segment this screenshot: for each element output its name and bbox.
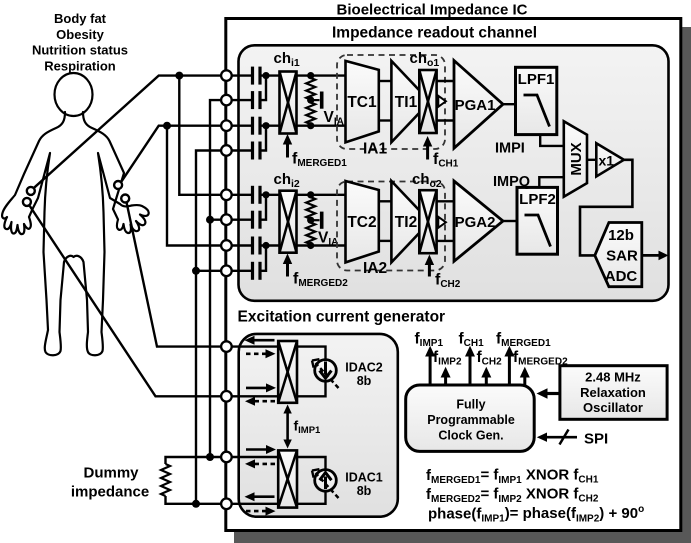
svg-text:Programmable: Programmable	[427, 413, 515, 427]
arrow clk fMERGED2	[520, 367, 530, 385]
svg-text:2.48 MHz: 2.48 MHz	[585, 370, 641, 385]
node R1 mid	[307, 97, 314, 104]
svg-text:Body fat: Body fat	[54, 11, 107, 26]
capacitor C2b	[253, 211, 261, 229]
wire TC2-TI2 bottom	[379, 240, 392, 242]
node pad12 junction	[192, 500, 200, 508]
pad 11	[221, 452, 232, 463]
node R1 bottom	[307, 122, 314, 129]
wire pad12 to chopper chB	[232, 503, 279, 505]
oscillator 2.48 MHz Relaxation Oscillator	[560, 366, 667, 420]
label IDAC2 8b	[345, 361, 383, 389]
svg-text:PGA2: PGA2	[455, 214, 496, 231]
label clockgen	[427, 398, 515, 443]
current source IDAC2	[312, 359, 339, 388]
electrode L2	[23, 198, 31, 206]
wire cho1 to PGA1 top	[437, 80, 454, 82]
pad 1	[221, 70, 232, 81]
wire electrode L2 to pad10	[30, 206, 227, 396]
clockgen Fully Programmable Clock Gen	[406, 385, 535, 451]
wire bus vertical pad3-pad7	[167, 126, 226, 246]
IA2 dashed box	[337, 182, 445, 271]
pad 10	[221, 391, 232, 402]
wire cho1 to PGA1 bottom	[437, 119, 454, 121]
svg-text:TC1: TC1	[347, 94, 377, 111]
resistor R1b	[306, 100, 315, 126]
svg-text:Oscillator: Oscillator	[583, 400, 643, 415]
arrow dashed right a2	[246, 349, 276, 358]
pad 3	[221, 120, 232, 131]
svg-text:impedance: impedance	[71, 484, 149, 501]
svg-text:IDAC2: IDAC2	[345, 361, 383, 375]
wire pad1 to cap C1a	[232, 74, 251, 76]
arrow fMERGED1	[283, 134, 292, 158]
svg-text:SPI: SPI	[584, 431, 608, 448]
capacitor C1c	[253, 117, 261, 135]
wire pad6 stub	[210, 218, 226, 220]
wire TC1-TI1 top	[379, 80, 392, 82]
svg-text:TI2: TI2	[395, 214, 417, 231]
arrow fCH2	[425, 255, 434, 277]
node R2 mid	[307, 217, 314, 224]
current source IDAC1	[312, 469, 339, 498]
node R1 top	[307, 72, 314, 79]
wire electrode R1 to pad3	[121, 126, 226, 182]
node pad11 junction	[206, 453, 214, 461]
wire pad8 to cap C2d	[232, 270, 251, 272]
op-amp TI1	[391, 61, 430, 142]
svg-text:IA1: IA1	[363, 141, 388, 158]
wire chi1 to TC1 top	[297, 74, 346, 76]
svg-text:Bioelectrical Impedance IC: Bioelectrical Impedance IC	[337, 2, 528, 19]
chopper cho1	[419, 70, 436, 133]
svg-text:Impedance readout channel: Impedance readout channel	[332, 25, 537, 42]
electrode L1	[27, 187, 35, 195]
wire dummy impedance bottom	[166, 496, 227, 504]
node R2 top	[307, 191, 314, 198]
pad 2	[221, 95, 232, 106]
svg-text:MUX: MUX	[568, 142, 585, 175]
wire cap C2c to chopper chi2	[262, 244, 280, 246]
wire pad5 to cap C2a	[232, 194, 251, 196]
chopper excitation bottom	[278, 450, 297, 507]
svg-text:PGA1: PGA1	[455, 97, 496, 114]
buffer triangle ch2	[438, 217, 446, 228]
adc 12b SAR ADC	[595, 223, 642, 287]
wire cap C2b up to node	[262, 195, 267, 220]
svg-text:Obesity: Obesity	[56, 27, 104, 42]
arrow clk fCH1	[465, 346, 475, 385]
svg-text:8b: 8b	[357, 374, 372, 388]
capacitor C2d	[253, 262, 261, 280]
arrow ADC output	[642, 251, 669, 261]
svg-text:TC2: TC2	[347, 214, 376, 231]
svg-text:phase(fIMP1)= phase(fIMP2) + 9: phase(fIMP1)= phase(fIMP2) + 90o	[428, 504, 644, 525]
wire cho2 to PGA2 bottom	[437, 240, 454, 242]
capacitor C1b	[253, 91, 261, 109]
svg-text:LPF1: LPF1	[518, 71, 555, 88]
wire chi2 to TC2 bottom	[297, 244, 346, 246]
wire pad6 to cap C2b	[232, 218, 251, 220]
pad 5	[221, 190, 232, 201]
label oscillator	[580, 370, 646, 416]
wire dummy impedance top	[166, 457, 227, 464]
svg-text:Relaxation: Relaxation	[580, 385, 646, 400]
svg-text:LPF2: LPF2	[519, 191, 556, 208]
node chi2 bottom input	[262, 242, 269, 249]
capacitor C1a	[253, 67, 261, 85]
mux MUX	[564, 121, 587, 196]
wire pad3 to cap C1c	[232, 124, 251, 126]
IA1 dashed box	[337, 55, 445, 149]
arrow clk fCH2	[481, 367, 491, 385]
svg-text:8b: 8b	[357, 484, 372, 498]
node chi2 top input	[262, 191, 269, 198]
chopper cho2	[419, 190, 436, 253]
wire pad8 stub	[196, 270, 226, 272]
arrow solid left b3	[245, 492, 275, 501]
op-amp PGA2	[454, 181, 503, 261]
wire pad4 to cap C1d	[232, 149, 251, 151]
pad 8	[221, 266, 232, 277]
arrow clk fIMP1	[425, 346, 435, 385]
wire pad9 to chopper chT	[232, 345, 279, 347]
arrow solid right a3	[246, 383, 276, 392]
wire cap C2d up to node	[262, 246, 267, 271]
arrow oscillator to clockgen	[537, 388, 560, 398]
wire cap C2a to chopper chi2	[262, 194, 280, 196]
svg-text:IMPQ: IMPQ	[493, 174, 530, 190]
wire x1 to ADC	[580, 160, 632, 256]
label 12b SAR ADC	[605, 227, 638, 285]
wire bus vertical pad2-pad6-pad11	[210, 100, 226, 457]
LPF1	[516, 67, 557, 134]
resistor R2a	[306, 195, 315, 220]
wire electrode L1 to pad1	[34, 76, 226, 188]
wire bus vertical pad1-pad5	[179, 76, 226, 195]
pad 7	[221, 240, 232, 251]
wire IDAC2 loop	[297, 347, 326, 397]
bias VIA tap ch1	[311, 92, 322, 109]
label IDAC1 8b	[345, 471, 383, 499]
pad 6	[221, 214, 232, 225]
svg-text:Clock Gen.: Clock Gen.	[438, 429, 503, 443]
PADS	[221, 70, 232, 509]
svg-text:IA2: IA2	[363, 260, 387, 277]
wire TC2-TI2 top	[379, 200, 392, 202]
bias VIA tap ch2	[311, 212, 322, 229]
wire cap C1c to chopper chi1	[262, 124, 280, 126]
wire bus vertical pad4-pad8-pad12	[196, 151, 226, 504]
arrow fCH1	[423, 136, 432, 160]
svg-text:Dummy: Dummy	[83, 465, 139, 482]
wire pad7 to cap C2c	[232, 244, 251, 246]
Bioelectrical Impedance IC outer box	[226, 19, 681, 531]
body text labels	[32, 11, 128, 73]
wire LPF1 to MUX	[540, 135, 564, 146]
arrow dashed left b2	[245, 459, 276, 468]
op-amp TC1	[346, 61, 379, 142]
wire PGA2 to LPF2	[503, 220, 517, 222]
svg-text:TI1: TI1	[395, 94, 418, 111]
wire cap C1d up to node	[262, 126, 267, 151]
buffer triangle ch1	[438, 96, 446, 107]
arrow fMERGED2	[283, 254, 292, 277]
wire cho2 to PGA2 top	[437, 200, 454, 202]
arrow dashed right b4	[246, 507, 276, 516]
wire chi1 to TC1 bottom	[297, 124, 346, 126]
wire pad11 to chopper chB	[232, 456, 279, 458]
head	[55, 73, 93, 116]
arrow fIMP1 double	[283, 405, 291, 449]
op-amp x1	[596, 143, 624, 176]
resistor R2b	[306, 220, 315, 245]
op-amp PGA1	[454, 61, 503, 149]
chopper chi1	[280, 72, 297, 134]
arrow solid left a1	[245, 336, 275, 345]
svg-text:ADC: ADC	[605, 268, 638, 285]
wire MUX to x1	[587, 159, 596, 161]
pad 12	[221, 499, 232, 510]
wire pad2 to cap C1b	[232, 99, 251, 101]
capacitor C1d	[253, 142, 261, 160]
wire LPF2 to MUX	[539, 177, 564, 187]
wire electrode R2 to pad9	[127, 203, 227, 347]
chopper excitation top	[278, 341, 297, 403]
node chi1 top input	[262, 72, 269, 79]
op-amp TI2	[391, 181, 430, 262]
arrow solid right b1	[246, 445, 276, 454]
svg-text:IDAC1: IDAC1	[345, 471, 383, 485]
chopper chi2	[280, 191, 297, 253]
wire cap C1a to chopper chi1	[262, 74, 280, 76]
svg-text:IMPI: IMPI	[495, 141, 525, 157]
capacitor C2c	[253, 237, 261, 255]
wire cap C1b up to node	[262, 76, 267, 101]
pad 4	[221, 145, 232, 156]
Excitation current generator box	[239, 334, 398, 517]
svg-text:12b: 12b	[608, 227, 634, 244]
svg-text:Respiration: Respiration	[44, 58, 116, 73]
wire PGA1 to LPF1	[503, 103, 516, 105]
arrow clk fIMP2	[441, 367, 451, 385]
node pad6 junction	[206, 216, 214, 224]
human body outline	[2, 73, 149, 355]
svg-text:Nutrition status: Nutrition status	[32, 43, 128, 58]
arrow SPI to clockgen	[537, 430, 577, 445]
node pad1 junction	[175, 72, 183, 80]
resistor dummy impedance	[161, 464, 170, 496]
svg-text:x1: x1	[599, 153, 615, 169]
svg-text:Excitation current generator: Excitation current generator	[238, 309, 446, 326]
node pad3 junction	[163, 122, 171, 130]
electrode R1	[114, 181, 122, 189]
svg-text:SAR: SAR	[606, 248, 638, 265]
wire TC1-TI1 bottom	[379, 119, 392, 121]
wire IDAC1 loop	[297, 457, 326, 504]
op-amp TC2	[346, 181, 379, 262]
drop shadow of IC box	[234, 27, 691, 543]
LPF2	[517, 187, 558, 254]
resistor R1a	[306, 76, 315, 101]
torso arms legs outline	[2, 112, 149, 355]
svg-text:Fully: Fully	[456, 398, 485, 412]
arrow clk fMERGED1	[504, 346, 514, 385]
arrow dashed left a4	[245, 397, 276, 406]
wire chi2 to TC2 top	[297, 194, 346, 196]
wire pad10 to chopper chT	[232, 395, 279, 397]
Impedance readout channel box	[239, 45, 669, 300]
node pad8 junction	[192, 267, 200, 275]
capacitor C2a	[253, 186, 261, 204]
pad 9	[221, 341, 232, 352]
node chi1 bottom input	[262, 122, 269, 129]
electrode R2	[121, 195, 129, 203]
node R2 bottom	[307, 242, 314, 249]
